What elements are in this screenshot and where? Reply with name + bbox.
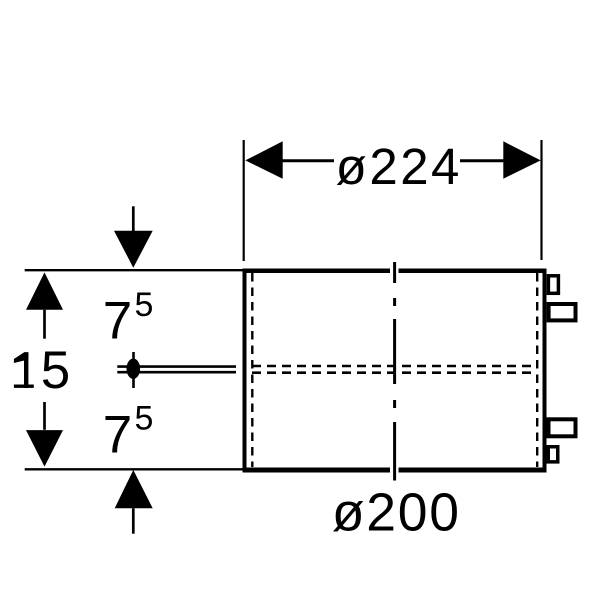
dimension 7.5 upper arrow stem <box>132 206 135 231</box>
svg-text:5: 5 <box>135 399 154 437</box>
drum left edge <box>243 269 247 473</box>
drum bottom edge left segment <box>243 468 391 473</box>
drum right tab 3 large lower <box>549 419 576 436</box>
drum right tab 2 large upper <box>549 304 576 320</box>
supply pipe double line upper <box>117 365 236 368</box>
dimension ø224 arrow right <box>503 141 540 178</box>
dimension 15 upper stem <box>43 310 46 339</box>
drum right edge <box>543 269 547 473</box>
svg-text:5: 5 <box>41 341 70 400</box>
right internal dashed line <box>536 273 538 467</box>
dimension ø224 extension line left <box>243 140 245 261</box>
dimension 15 arrow down <box>26 430 63 467</box>
drum right tab 1 small top <box>548 276 558 294</box>
dimension ø224 extension line right <box>540 140 542 260</box>
drum bottom edge right segment <box>399 468 547 473</box>
svg-text:ø224: ø224 <box>336 138 462 195</box>
drum top edge left segment <box>243 268 391 273</box>
supply pipe double line lower <box>117 371 236 374</box>
drum right tab 4 small bottom <box>548 447 558 462</box>
dimension 15 arrow up <box>26 272 63 309</box>
dimension 15 label digit 1 <box>14 352 34 388</box>
water inlet lens symbol <box>127 359 141 379</box>
vertical centerline dash-dot <box>393 262 396 481</box>
dimension 7.5 lower arrow up <box>115 470 153 508</box>
svg-text:5: 5 <box>135 286 154 324</box>
horizontal dashed pipe line upper <box>252 365 536 368</box>
svg-text:7: 7 <box>103 292 132 351</box>
dimension 15 bottom reference line <box>25 468 243 470</box>
left internal dashed line <box>251 273 253 467</box>
svg-text:ø200: ø200 <box>332 483 461 542</box>
dimension ø224 line right segment <box>460 159 504 162</box>
svg-text:7: 7 <box>103 406 132 465</box>
dimension 7.5 upper arrow down <box>114 231 153 268</box>
dimension ø224 arrow left <box>245 141 282 178</box>
dimension 15 top reference line <box>25 269 243 271</box>
drum top edge right segment <box>399 268 547 273</box>
horizontal dashed pipe line lower <box>252 371 536 374</box>
dimension ø224 line left segment <box>281 159 334 162</box>
dimension 15 lower stem <box>43 402 46 430</box>
dimension 7.5 lower arrow stem <box>132 508 135 533</box>
lens axis line <box>132 352 135 388</box>
